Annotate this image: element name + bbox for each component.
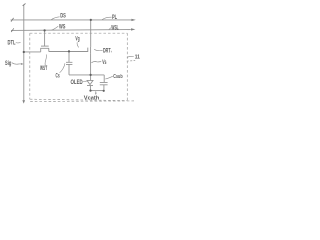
leader Vg bbox=[77, 42, 79, 47]
leader 11 elbow dashed bbox=[127, 60, 135, 63]
tick DTL top end bbox=[23, 4, 26, 6]
capacitor Csub top stem bbox=[103, 75, 105, 83]
labels bbox=[5, 13, 140, 102]
wire DTL to WST source bbox=[24, 51, 41, 53]
leader DS bbox=[51, 17, 59, 20]
svg-text:PL: PL bbox=[112, 14, 117, 21]
leader WS bbox=[52, 26, 59, 30]
svg-text:Csub: Csub bbox=[113, 74, 122, 80]
box pixel bottom edge bbox=[30, 99, 128, 100]
wire WST gate lead bbox=[44, 30, 46, 46]
capacitor Cs bottom stem bbox=[68, 64, 70, 75]
diode OLED cathode bar bbox=[87, 85, 93, 87]
leader 11 bbox=[127, 56, 134, 57]
box pixel right edge bbox=[126, 33, 128, 100]
wire OLED cathode stem bbox=[89, 86, 91, 91]
svg-text:WST: WST bbox=[40, 65, 47, 72]
node cathode-OLED junction bbox=[89, 90, 91, 92]
transistor DRT gate bar bbox=[87, 48, 89, 52]
svg-text:DTL: DTL bbox=[8, 40, 16, 47]
dashed box pixel 11 bbox=[30, 33, 135, 101]
arrow Vcath terminal bbox=[95, 93, 97, 95]
boundary adjacent pixel dashed line bbox=[30, 100, 135, 103]
node PL-drain junction bbox=[90, 19, 92, 21]
svg-text:DS: DS bbox=[60, 13, 66, 20]
arrow WSL right bbox=[131, 28, 135, 30]
svg-text:DRT: DRT bbox=[103, 47, 111, 54]
node WSL-gate junction bbox=[43, 29, 45, 31]
svg-text:OLED: OLED bbox=[71, 79, 84, 86]
junction dots bbox=[23, 19, 105, 92]
svg-text:WS: WS bbox=[59, 23, 65, 30]
wire WSL write scan line bbox=[11, 29, 131, 32]
leader DTL bbox=[16, 41, 21, 44]
wire OLED anode stem bbox=[90, 75, 92, 81]
node Vg-Cs junction bbox=[68, 50, 70, 52]
arrow Sig leader bbox=[21, 63, 24, 65]
arrow DTL bottom bbox=[22, 100, 25, 103]
box pixel top edge bbox=[30, 32, 128, 34]
tick after label DRT bbox=[110, 51, 112, 53]
leader Vs bbox=[91, 62, 101, 63]
box pixel left edge bbox=[29, 33, 31, 99]
tick after label WST bbox=[45, 67, 48, 68]
svg-text:WSL: WSL bbox=[111, 26, 118, 32]
leader DRT bbox=[94, 49, 102, 51]
capacitor Cs top stem bbox=[68, 51, 70, 62]
node Vs-OLED junction bbox=[89, 74, 91, 76]
capacitor Csub plates bbox=[100, 82, 108, 84]
capacitor Csub bottom stem bbox=[103, 85, 105, 91]
wire PL power line bbox=[11, 19, 132, 21]
svg-text:11: 11 bbox=[135, 55, 140, 61]
diode OLED triangle bbox=[87, 80, 93, 84]
leader WST bbox=[45, 54, 46, 65]
wire Vcath terminal stub bbox=[95, 91, 97, 93]
tick WSL left end bbox=[11, 28, 14, 32]
svg-text:Vs: Vs bbox=[102, 60, 107, 66]
leader OLED bbox=[83, 80, 87, 83]
arrowheads and ticks bbox=[21, 19, 136, 104]
wire DRT drain from PL bbox=[90, 20, 92, 47]
transistor DRT channel bbox=[90, 47, 92, 53]
wire DTL data line bbox=[23, 5, 25, 101]
svg-text:Sig: Sig bbox=[5, 60, 11, 67]
leader Csub bbox=[105, 76, 113, 79]
leader PL bbox=[102, 17, 112, 20]
leader Sig bbox=[12, 63, 22, 64]
tick PL left end bbox=[11, 18, 14, 22]
svg-text:Cs: Cs bbox=[56, 74, 61, 80]
transistor WST channel bbox=[40, 48, 49, 52]
wire node Vs horizontal bbox=[69, 74, 104, 76]
capacitor Cs plates bbox=[66, 62, 72, 64]
leader lines bbox=[12, 17, 134, 82]
node DTL-source junction bbox=[23, 51, 25, 53]
wire cathode bottom bbox=[90, 90, 104, 92]
wire node Vg: WST to DRT gate bbox=[49, 51, 88, 53]
wire DRT source to node Vs bbox=[90, 53, 92, 75]
svg-text:Vcath: Vcath bbox=[84, 96, 99, 102]
leader WSL bbox=[109, 28, 112, 30]
svg-text:Vg: Vg bbox=[75, 37, 79, 43]
leader Cs bbox=[60, 63, 65, 72]
arrow PL right bbox=[131, 19, 135, 21]
node cathode-Csub junction bbox=[103, 90, 105, 92]
transistor WST gate bar bbox=[41, 45, 49, 47]
